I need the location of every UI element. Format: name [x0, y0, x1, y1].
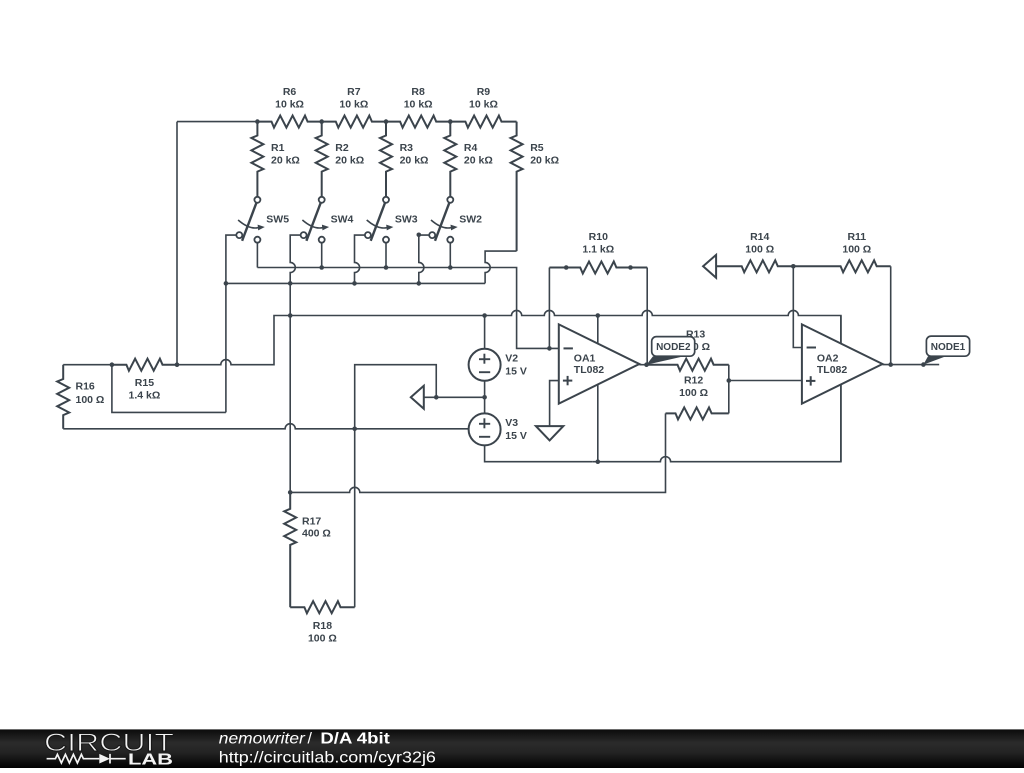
resistor R8: [386, 116, 450, 128]
net label NODE1: [923, 356, 945, 364]
voltage source V3: [484, 397, 486, 413]
svg-text:1.4 kΩ: 1.4 kΩ: [129, 389, 161, 401]
ground GND1: [536, 426, 563, 440]
resistor R6: [257, 116, 321, 128]
switch SW5: [256, 197, 258, 203]
node R4-R9 top: [448, 119, 453, 124]
resistor R16: [57, 365, 69, 429]
svg-text:R17: R17: [302, 516, 321, 528]
svg-text:100 Ω: 100 Ω: [308, 633, 337, 645]
node SW2 bus1: [448, 265, 453, 270]
wire SW2 left terminal drop: [419, 235, 429, 283]
svg-text:R11: R11: [847, 231, 866, 243]
wire OA1 plus to ground: [550, 381, 559, 426]
node SW2 bus2: [417, 281, 422, 286]
node SW5 bus2: [224, 281, 229, 286]
wire R13 right down to OA2 plus node: [729, 365, 802, 381]
switch SW2: [449, 197, 451, 203]
svg-text:SW5: SW5: [266, 213, 289, 225]
resistor R18: [290, 601, 355, 613]
svg-text:D/A 4bit: D/A 4bit: [320, 730, 390, 747]
node R17 top: [288, 490, 293, 495]
svg-text:20 kΩ: 20 kΩ: [335, 154, 364, 166]
resistor R12: [666, 407, 729, 419]
svg-text:R9: R9: [477, 86, 491, 98]
op-amp OA1: [559, 324, 640, 403]
svg-text:10 kΩ: 10 kΩ: [339, 98, 368, 110]
svg-text:nemowriter: nemowriter: [219, 730, 306, 747]
svg-text:100 Ω: 100 Ω: [679, 387, 708, 399]
resistor R17: [284, 492, 296, 607]
svg-text:http://circuitlab.com/cyr32j6: http://circuitlab.com/cyr32j6: [219, 750, 436, 767]
svg-text:400 Ω: 400 Ω: [302, 528, 331, 540]
node R3-R8 top: [384, 119, 389, 124]
svg-text:R5: R5: [530, 142, 544, 154]
svg-text:TL082: TL082: [574, 364, 605, 376]
node SW2 left corner: [417, 233, 422, 238]
svg-text:SW2: SW2: [459, 213, 482, 225]
wire top bus left segment: [177, 121, 257, 123]
svg-text:100 Ω: 100 Ω: [745, 244, 774, 256]
svg-text:R10: R10: [589, 231, 608, 243]
wire R15 right to V+ node: [177, 316, 290, 365]
svg-text:R6: R6: [283, 86, 297, 98]
resistor R5: [511, 122, 523, 252]
op-amp OA2: [802, 324, 883, 403]
node ground flag: [434, 395, 439, 400]
node R1-R6 top: [255, 119, 260, 124]
svg-text:R18: R18: [313, 620, 332, 632]
svg-text:100 Ω: 100 Ω: [76, 394, 105, 406]
node OA1 Vplus: [596, 313, 601, 318]
svg-text:R8: R8: [411, 86, 425, 98]
wire SW3 right terminal stub: [385, 243, 387, 268]
voltage source V2: [484, 316, 486, 349]
node OA2 noninverting: [727, 378, 732, 383]
resistor R3: [380, 122, 392, 197]
node OA2 output: [888, 362, 893, 367]
svg-text:R7: R7: [347, 86, 361, 98]
resistor R7: [322, 116, 386, 128]
node R14-R11: [791, 264, 796, 269]
node R15-R16: [110, 362, 115, 367]
node SW4 bus2: [288, 281, 293, 286]
node SW3 bus1: [384, 265, 389, 270]
svg-text:LAB: LAB: [128, 752, 173, 768]
wire left vertical from top bus to R15: [176, 122, 178, 365]
node OA1 Vminus: [596, 459, 601, 464]
wire V3 minus to V- rail: [485, 445, 593, 461]
node R18 top: [352, 427, 357, 432]
wire SW4 drop to R17: [289, 283, 291, 492]
wire SW5 drop lower corner: [112, 365, 226, 413]
wire OA1 supply vertical: [597, 316, 599, 462]
wire R16 bottom to V3: [63, 424, 469, 429]
wire SW4 right terminal stub: [321, 243, 323, 268]
svg-text:R1: R1: [271, 142, 285, 154]
wire midpoint to ground flag: [424, 396, 485, 398]
wire V+ rail: [290, 310, 841, 346]
wire R12 vertical from plus node: [728, 381, 730, 414]
wire V2 minus to midpoint: [484, 381, 486, 398]
node OA1 inverting: [547, 346, 552, 351]
wire OA1 output: [639, 364, 646, 366]
node R15 right: [175, 362, 180, 367]
svg-text:R14: R14: [750, 231, 769, 243]
svg-text:R16: R16: [76, 380, 95, 392]
switch SW4: [321, 197, 323, 203]
resistor R14: [716, 260, 793, 272]
svg-text:V3: V3: [505, 417, 518, 429]
node R10 right terminal: [628, 265, 633, 270]
svg-text:20 kΩ: 20 kΩ: [464, 154, 493, 166]
wire R14 node down to OA2 inverting: [793, 266, 802, 347]
svg-text:/: /: [308, 730, 313, 747]
svg-text:SW3: SW3: [395, 213, 418, 225]
svg-text:10 kΩ: 10 kΩ: [275, 98, 304, 110]
node OA1 output NODE2: [644, 362, 649, 367]
svg-text:15 V: 15 V: [505, 366, 527, 378]
resistor R11: [793, 260, 890, 272]
node V2 top: [482, 313, 487, 318]
svg-text:20 kΩ: 20 kΩ: [530, 154, 559, 166]
svg-text:R4: R4: [464, 142, 478, 154]
svg-text:20 kΩ: 20 kΩ: [400, 154, 429, 166]
svg-text:15 V: 15 V: [505, 430, 527, 442]
wire SW5 right terminal stub: [256, 243, 258, 268]
wire SW3 left terminal drop: [355, 235, 365, 283]
wire SW4 left terminal drop: [290, 235, 300, 283]
svg-text:10 kΩ: 10 kΩ: [469, 98, 498, 110]
svg-text:NODE2: NODE2: [656, 342, 691, 353]
svg-text:SW4: SW4: [331, 213, 354, 225]
wire switch bus to OA1 inverting input: [257, 268, 558, 349]
resistor R1: [251, 122, 263, 197]
svg-text:R3: R3: [400, 142, 414, 154]
switch SW3: [385, 197, 387, 203]
wire V- rail: [593, 383, 841, 462]
wire switch left bus: [226, 282, 485, 284]
resistor R4: [444, 122, 456, 197]
svg-text:R12: R12: [684, 375, 703, 387]
resistor R10: [549, 262, 647, 274]
resistor R2: [316, 122, 328, 197]
node R2-R7 top: [319, 119, 324, 124]
wire R10 left drop to inverting node: [548, 268, 550, 349]
node V2-V3 midpoint: [482, 395, 487, 400]
wire OA2 supply vertical: [840, 316, 842, 462]
svg-text:R15: R15: [135, 377, 154, 389]
svg-text:1.1 kΩ: 1.1 kΩ: [582, 244, 614, 256]
node NODE1 anchor: [921, 362, 926, 367]
svg-text:TL082: TL082: [817, 364, 848, 376]
ground flag near V2-V3: [411, 386, 424, 409]
wire SW5 left terminal drop: [226, 235, 236, 412]
resistor R9: [450, 116, 516, 128]
wire R11 right down to OA2 output: [890, 266, 892, 364]
node SW3 bus2: [352, 281, 357, 286]
svg-text:OA2: OA2: [817, 352, 839, 364]
svg-text:NODE1: NODE1: [931, 342, 966, 353]
wire R16 net to V2-V3 midpoint: [355, 365, 437, 429]
node R10 left terminal: [564, 265, 569, 270]
svg-text:V2: V2: [505, 353, 518, 365]
net label NODE2: [647, 356, 685, 365]
wire R10 right drop to OA1 output: [646, 268, 648, 365]
wire OA2 output: [883, 364, 940, 366]
svg-text:20 kΩ: 20 kΩ: [271, 154, 300, 166]
wire R18 right up: [354, 429, 356, 607]
svg-text:R2: R2: [335, 142, 349, 154]
node Vplus rail left: [288, 313, 293, 318]
resistor R13: [647, 359, 729, 371]
svg-text:100 Ω: 100 Ω: [842, 244, 871, 256]
ground flag near R14: [703, 255, 716, 278]
svg-text:10 kΩ: 10 kΩ: [404, 98, 433, 110]
logo resistor-diode glyph: [47, 754, 100, 763]
resistor R15: [112, 359, 177, 371]
wire bottom rail: [290, 413, 665, 492]
svg-text:OA1: OA1: [574, 352, 596, 364]
wire SW2 right terminal stub: [449, 243, 451, 268]
wire R16 top to R15: [63, 364, 112, 366]
wire R5 bottom to left bus: [485, 251, 516, 283]
node SW4 bus1: [319, 265, 324, 270]
